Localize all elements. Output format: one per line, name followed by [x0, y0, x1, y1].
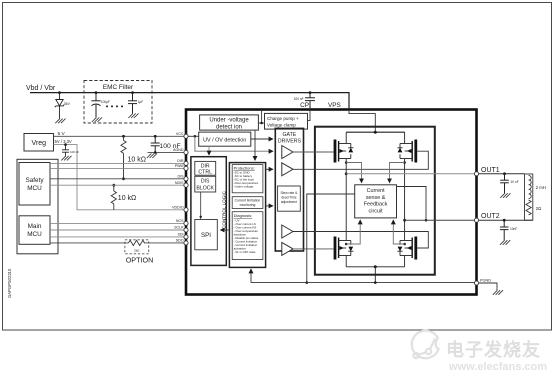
svg-text:MCU: MCU	[27, 231, 42, 238]
svg-text:GATE: GATE	[283, 132, 297, 138]
Main MCU	[19, 216, 50, 245]
svg-text:Feedback: Feedback	[364, 202, 388, 208]
wire DIR	[50, 162, 185, 164]
wire VPS stub	[261, 111, 263, 123]
svg-text:Safety: Safety	[25, 177, 44, 184]
EMC filter dashed box	[84, 81, 152, 124]
node junction C1	[95, 91, 98, 94]
svg-text:Current: Current	[367, 188, 385, 194]
svg-text:www.elecfans.com: www.elecfans.com	[448, 361, 547, 373]
block Under-voltage detection	[200, 115, 259, 130]
svg-text:Charge pump +: Charge pump +	[267, 116, 299, 121]
wire OUT1 internal	[345, 172, 348, 175]
svg-text:CONTROL LOGIC: CONTROL LOGIC	[221, 190, 226, 229]
svg-text:PWM: PWM	[175, 164, 184, 168]
block UV/OV detection	[199, 132, 251, 146]
wire source rail to PGND	[374, 267, 376, 283]
wire UVOV to gate drivers	[251, 138, 273, 140]
wire Vbd/Vbr supply rail	[30, 93, 349, 109]
block Diagnosis	[232, 212, 263, 260]
control logic container	[191, 157, 226, 266]
wire 5V/3.3V rail	[54, 145, 186, 210]
wire CP pin to charge pump	[308, 108, 311, 120]
op-amp driver A1	[282, 146, 293, 159]
capacitor C3 100nF charge pump	[305, 93, 315, 109]
wire bridge bottom rail	[346, 266, 404, 268]
svg-text:5V / 3.3V: 5V / 3.3V	[55, 139, 72, 144]
watermark logo	[412, 331, 439, 359]
svg-text:VCC: VCC	[176, 132, 184, 136]
svg-text:circuit: circuit	[369, 208, 384, 214]
svg-text:DIS: DIS	[178, 175, 185, 179]
wire sense tap Q3	[345, 243, 348, 246]
wire NDIS	[50, 184, 185, 186]
capacitor C7 10nF OUT2	[500, 220, 509, 240]
svg-text:DRIVERS: DRIVERS	[278, 139, 302, 145]
transistor Q4 low-side right	[397, 237, 417, 260]
MCU module outline	[17, 159, 58, 254]
svg-text:5 V: 5 V	[58, 131, 66, 137]
ground for C1	[92, 117, 102, 122]
svg-text:AGND: AGND	[173, 148, 184, 152]
power stage box	[315, 127, 435, 275]
wire OUT2 internal	[403, 219, 406, 222]
svg-text:1µF: 1µF	[138, 100, 144, 104]
svg-text:10 kΩ: 10 kΩ	[118, 195, 136, 202]
wire VPS pin to bridge	[349, 111, 375, 132]
svg-text:Vbd / Vbr: Vbd / Vbr	[26, 85, 56, 92]
wire AGND	[148, 151, 186, 153]
wire PGND bus	[251, 282, 477, 284]
block DIS BLOCK	[195, 176, 216, 192]
svg-text:detect ion: detect ion	[216, 125, 242, 131]
svg-text:EMC Filter: EMC Filter	[103, 84, 134, 91]
node junction pull-up top	[122, 135, 125, 138]
wire DIS	[50, 178, 185, 180]
svg-text:MCU: MCU	[27, 185, 42, 192]
op-amp driver A3	[282, 225, 293, 238]
ground for C4	[61, 156, 71, 161]
gate drivers box	[275, 128, 303, 251]
svg-text:OUT1: OUT1	[481, 167, 500, 174]
svg-text:OUT2: OUT2	[481, 213, 500, 220]
wire feedback to diagnosis	[250, 269, 252, 282]
node junction C2	[131, 91, 134, 94]
wire bridge top rail	[346, 131, 404, 133]
block Current limitation monitoring	[232, 197, 263, 209]
node junction VCC cap	[154, 135, 157, 138]
wire SDI	[50, 236, 185, 238]
svg-text:Under -voltage: Under -voltage	[209, 118, 249, 124]
svg-text:NCS: NCS	[176, 219, 184, 223]
block Protections	[232, 165, 263, 193]
svg-text:2Ω: 2Ω	[536, 206, 541, 211]
pin labels left	[172, 132, 184, 243]
wire sense feedback left	[307, 194, 355, 283]
IC pins left	[184, 134, 188, 245]
svg-text:10 kΩ: 10 kΩ	[128, 157, 146, 164]
wire sense to OUT2	[397, 187, 427, 221]
svg-text:5kΩ: 5kΩ	[134, 249, 139, 253]
svg-text:SCLK: SCLK	[174, 226, 184, 230]
svg-text:CP: CP	[300, 102, 309, 109]
transistor Q2 high-side right	[397, 140, 417, 163]
block SPI	[195, 220, 218, 250]
wire UV to charge pump	[258, 122, 264, 124]
svg-text:DIR: DIR	[177, 159, 184, 163]
load inductor 2mH + resistor 2ohm	[525, 174, 533, 220]
wire sense tap Q2	[403, 161, 406, 164]
block current sense	[355, 185, 397, 218]
wire UV det down to protections	[254, 130, 256, 160]
svg-text:sense &: sense &	[366, 195, 386, 201]
block Charge pump	[265, 113, 308, 129]
capacitor C5 100nF VCC	[151, 136, 160, 152]
op-amp driver A2	[282, 163, 293, 176]
svg-text:100 nF: 100 nF	[70, 150, 79, 154]
wire gate Q4	[293, 232, 428, 249]
svg-text:电子发烧友: 电子发烧友	[446, 339, 541, 360]
svg-text:DIS: DIS	[201, 179, 210, 185]
svg-text:OPTION: OPTION	[126, 256, 154, 265]
svg-text:UV / OV detection: UV / OV detection	[203, 137, 246, 143]
svg-text:- SL in OFF state: - SL in OFF state	[234, 250, 256, 254]
ground for C2	[128, 113, 138, 118]
svg-text:BLOCK: BLOCK	[196, 185, 214, 191]
ground for zener	[55, 119, 65, 124]
wire UVOV down to control logic	[208, 146, 210, 155]
transistor Q3 low-side left	[334, 237, 354, 260]
wire 5V rail	[54, 135, 186, 137]
wire gate Q2	[293, 151, 428, 169]
capacitor C6 10nF OUT1	[500, 174, 509, 193]
svg-text:10nF: 10nF	[510, 227, 517, 231]
svg-text:Vreg: Vreg	[32, 140, 47, 147]
capacitor C2 1uF	[128, 93, 137, 114]
svg-text:10 nF: 10 nF	[511, 180, 519, 184]
op-amp driver A4	[282, 242, 293, 255]
ground AGND	[147, 153, 157, 158]
svg-text:VPS: VPS	[328, 102, 341, 109]
resistor R2 10k NDIS	[112, 184, 115, 187]
wire NCS	[50, 222, 185, 224]
wire diagnosis to SPI	[221, 229, 230, 231]
wire VCC to UVOV	[188, 135, 199, 137]
svg-text:adjustment: adjustment	[281, 200, 297, 204]
regulator Vreg	[24, 134, 54, 152]
svg-text:SDO: SDO	[176, 239, 184, 243]
svg-text:100 nF: 100 nF	[294, 97, 304, 101]
svg-text:GAPGPS02310: GAPGPS02310	[7, 268, 12, 298]
svg-text:NDIS: NDIS	[175, 181, 184, 185]
svg-text:36V: 36V	[64, 102, 71, 106]
svg-text:-Under voltage: -Under voltage	[234, 185, 254, 189]
capacitor C1 100uF	[91, 93, 100, 118]
protections container	[229, 163, 265, 268]
ground PGND	[493, 290, 503, 295]
svg-text:monitoring: monitoring	[240, 203, 256, 207]
ground C7	[500, 240, 510, 245]
svg-text:Main: Main	[28, 223, 42, 230]
wire gate Q3	[293, 248, 334, 250]
wire monitoring to power stage	[266, 205, 273, 207]
svg-text:Voltage clamp: Voltage clamp	[267, 122, 296, 127]
IC pins right	[474, 172, 478, 285]
svg-text:VDDIO: VDDIO	[172, 206, 184, 210]
resistor R3 option SDO	[129, 240, 146, 245]
wire SDO	[50, 242, 129, 244]
block DIR CTRL	[195, 161, 216, 175]
node junction C4	[64, 143, 67, 146]
wire SCLK	[50, 229, 185, 231]
svg-text:SDI: SDI	[178, 233, 184, 237]
svg-text:100µF: 100µF	[101, 100, 110, 104]
block slew rate	[278, 186, 301, 211]
svg-text:Slew rate &: Slew rate &	[280, 191, 298, 195]
wire sense tap Q4	[403, 243, 406, 246]
node junction zener	[58, 91, 61, 94]
svg-text:CTRL: CTRL	[198, 169, 212, 175]
wire DIS BLOCK to SPI	[200, 192, 202, 220]
capacitor C4 100nF	[62, 145, 69, 156]
wire gate Q1	[293, 151, 334, 153]
svg-text:2 mH: 2 mH	[536, 185, 546, 190]
transistor Q1 high-side left	[334, 140, 354, 163]
IC outline	[186, 110, 477, 295]
svg-text:SPI: SPI	[201, 232, 211, 239]
wire protections to gate drivers	[266, 168, 273, 170]
zener diode D1 36V	[55, 93, 64, 119]
node junction CP cap	[309, 91, 312, 94]
Safety MCU	[19, 163, 50, 206]
ground C6	[500, 193, 510, 198]
resistor R1 10k pull-up	[123, 136, 125, 140]
wire PWM	[50, 167, 185, 169]
svg-text:PGND: PGND	[480, 278, 491, 282]
dots ellipsis	[106, 105, 123, 107]
wire sense tap Q1	[345, 161, 348, 164]
svg-text:Diagnosis:: Diagnosis:	[234, 213, 253, 218]
wire VCC to gate drivers	[195, 136, 273, 151]
svg-text:dead Time: dead Time	[281, 195, 297, 199]
